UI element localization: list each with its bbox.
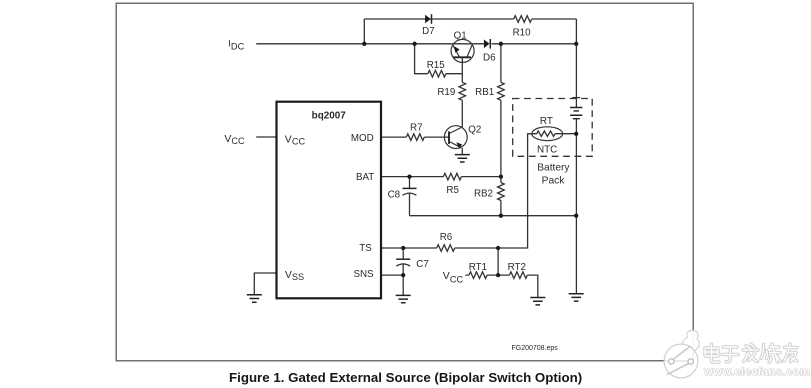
svg-text:D7: D7 [422,26,435,37]
svg-text:RB2: RB2 [474,189,493,200]
svg-text:D6: D6 [483,53,496,64]
svg-text:R5: R5 [446,185,459,196]
svg-text:Battery: Battery [537,163,570,174]
svg-text:R6: R6 [440,232,453,243]
svg-text:C7: C7 [416,259,429,270]
svg-text:Q2: Q2 [468,125,481,136]
svg-text:RT2: RT2 [508,262,526,273]
svg-text:R15: R15 [427,60,446,71]
svg-text:Pack: Pack [542,175,566,186]
svg-text:VSS: VSS [285,269,304,282]
svg-text:RT: RT [540,116,553,127]
svg-text:NTC: NTC [537,144,557,155]
svg-text:VCC: VCC [443,270,464,284]
svg-text:www.elecfans.com: www.elecfans.com [703,366,810,378]
svg-text:R10: R10 [513,28,532,39]
svg-text:SNS: SNS [353,269,374,280]
svg-text:Figure 1. Gated External Sourc: Figure 1. Gated External Source (Bipolar… [229,370,582,385]
svg-text:R19: R19 [437,87,455,98]
svg-text:bq2007: bq2007 [312,111,347,122]
svg-text:Q1: Q1 [454,31,467,42]
svg-text:VCC: VCC [224,133,245,146]
svg-text:RB1: RB1 [475,87,494,98]
svg-text:R7: R7 [410,123,423,134]
svg-text:FG200708.eps: FG200708.eps [512,345,559,352]
svg-text:BAT: BAT [356,172,374,183]
svg-text:MOD: MOD [351,133,374,144]
svg-text:RT1: RT1 [469,262,487,273]
svg-text:C8: C8 [388,189,401,200]
svg-text:IDC: IDC [228,39,244,52]
svg-text:TS: TS [359,243,372,254]
svg-text:VCC: VCC [285,133,306,146]
